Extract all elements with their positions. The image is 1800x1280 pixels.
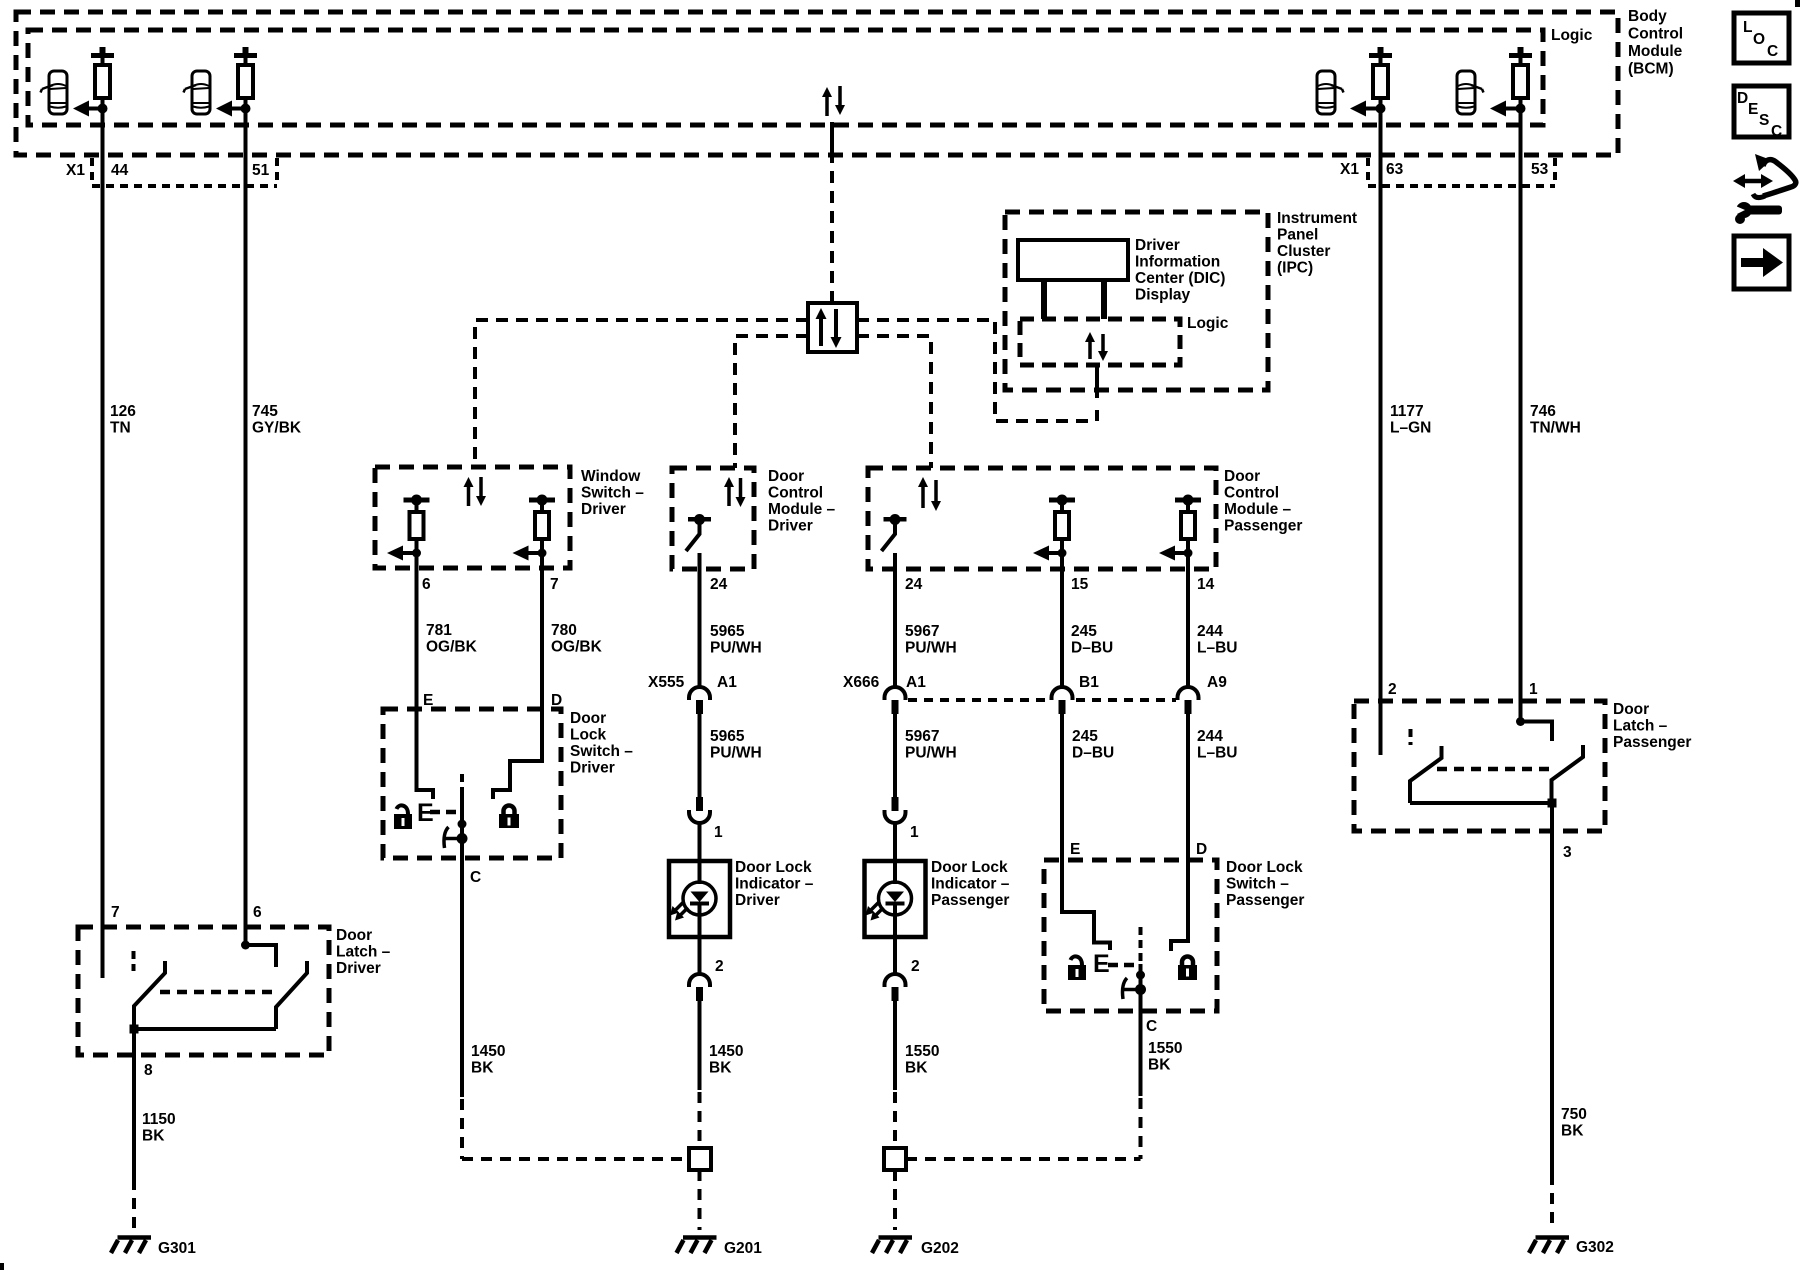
svg-text:O: O — [1753, 31, 1765, 48]
component box: Door Lock Switch - Driver — [383, 709, 561, 858]
dashed wire into splice (G202) — [893, 1092, 897, 1148]
svg-text:126: 126 — [110, 403, 136, 420]
svg-text:D: D — [551, 692, 562, 709]
connector X1 band right — [1368, 158, 1555, 186]
latch lever coupling dashes (driver) — [160, 990, 272, 995]
svg-text:Switch –: Switch – — [570, 743, 633, 760]
svg-text:Lock: Lock — [570, 727, 607, 744]
svg-text:14: 14 — [1197, 576, 1215, 593]
svg-text:C: C — [1771, 123, 1782, 140]
in-line connector at indicator pin 1 — [689, 797, 710, 823]
latch switch lever right (driver) — [276, 961, 307, 1029]
svg-text:2: 2 — [1388, 681, 1397, 698]
in-line connector X666 pin A1 — [885, 687, 906, 714]
svg-text:E: E — [423, 692, 433, 709]
component box: Door Lock Indicator - Driver — [669, 861, 730, 937]
svg-text:Logic: Logic — [1187, 315, 1229, 332]
dashed wire splice to ground — [698, 1170, 702, 1230]
dashed wire to ground G302 — [1550, 1174, 1554, 1228]
car icon (pin 44, off-page to vehicle) — [41, 71, 68, 114]
component box: Door Latch - Passenger — [1354, 701, 1605, 831]
component box: Door Lock Indicator - Passenger — [865, 861, 926, 937]
window switch driver output pin 6 — [387, 495, 430, 561]
serial data dashed elbow into IPC — [1095, 409, 1099, 421]
svg-text:746: 746 — [1530, 403, 1556, 420]
svg-text:E: E — [1070, 841, 1080, 858]
svg-text:Control: Control — [1628, 26, 1683, 43]
wire 1550 BK from lock switch C — [1139, 1011, 1143, 1096]
ground G301 — [111, 1238, 151, 1254]
svg-text:L–GN: L–GN — [1390, 420, 1431, 437]
module box: Door Control Module - Driver — [672, 468, 754, 569]
serial data junction box — [808, 303, 857, 352]
ground G202 — [872, 1238, 912, 1254]
latch lever coupling dashes (passenger) — [1437, 767, 1551, 772]
svg-text:L–BU: L–BU — [1197, 745, 1237, 762]
icon: LOC box — [1734, 13, 1789, 63]
BCM output driver pin 53 — [1490, 47, 1532, 117]
LED lamp symbol (passenger indicator) — [866, 882, 912, 921]
svg-text:G301: G301 — [158, 1240, 196, 1257]
svg-text:PU/WH: PU/WH — [710, 640, 762, 657]
svg-text:Control: Control — [1224, 485, 1279, 502]
serial data wire junction to window switch — [475, 320, 808, 467]
in-line connector X555 pin A1 — [689, 687, 710, 714]
svg-text:5965: 5965 — [710, 728, 745, 745]
svg-text:BK: BK — [142, 1128, 165, 1145]
svg-text:E: E — [1093, 950, 1110, 978]
svg-text:Module: Module — [1628, 43, 1683, 60]
dashed contact link E (passenger) — [1108, 963, 1136, 968]
icon: right arrow box — [1734, 236, 1789, 289]
svg-text:A1: A1 — [906, 674, 926, 691]
svg-text:53: 53 — [1531, 161, 1549, 178]
svg-text:Driver: Driver — [570, 760, 615, 777]
svg-text:Door: Door — [336, 927, 372, 944]
svg-text:Door: Door — [570, 710, 606, 727]
icon: diagnostic wrench with arrows — [1731, 154, 1796, 224]
wire 1177 end contact inside latch — [1379, 701, 1383, 755]
wire from passenger indicator pin 2 — [893, 905, 897, 974]
serial data arrows in BCM logic — [822, 86, 845, 116]
svg-text:Display: Display — [1135, 287, 1191, 304]
svg-text:PU/WH: PU/WH — [905, 640, 957, 657]
connector X1 band left — [92, 158, 277, 186]
svg-text:7: 7 — [550, 576, 559, 593]
wire 245 D-BU pin 15 — [1060, 557, 1064, 687]
wire 1177 L-GN from BCM pin 63 — [1379, 113, 1383, 755]
svg-text:44: 44 — [111, 162, 129, 179]
svg-text:TN/WH: TN/WH — [1530, 420, 1581, 437]
wire 126 end contact inside latch — [101, 927, 105, 978]
wire DCM passenger pin 24 — [893, 553, 897, 687]
unlock padlock icon (passenger) — [1068, 956, 1086, 980]
svg-text:GY/BK: GY/BK — [252, 420, 302, 437]
serial data wire junction to door control module passenger — [857, 336, 931, 468]
svg-text:D–BU: D–BU — [1072, 745, 1114, 762]
svg-text:D–BU: D–BU — [1071, 640, 1113, 657]
svg-text:5967: 5967 — [905, 623, 939, 640]
svg-text:(IPC): (IPC) — [1277, 260, 1313, 277]
ground bus wire left (1450 BK to G201 splice) — [462, 1157, 689, 1161]
car icon (pin 51) — [184, 71, 211, 114]
wire DCM driver pin 24 — [698, 553, 702, 687]
svg-text:3: 3 — [1563, 844, 1572, 861]
svg-text:245: 245 — [1071, 623, 1097, 640]
module box: Instrument Panel Cluster (IPC) — [1005, 212, 1268, 390]
mechanical link dashes (driver latch) — [132, 951, 136, 971]
DCM passenger driver output pin 14 — [1159, 495, 1201, 561]
wire 1550 BK (indicator to splice) — [893, 1001, 897, 1090]
serial data arrows in IPC logic — [1085, 332, 1108, 361]
in-line connector below passenger indicator — [885, 974, 906, 1001]
latch switch lever left (driver) — [134, 961, 165, 1029]
svg-text:X666: X666 — [843, 674, 880, 691]
latch junction node (driver) — [130, 1025, 139, 1034]
svg-text:15: 15 — [1071, 576, 1089, 593]
svg-text:PU/WH: PU/WH — [710, 745, 762, 762]
svg-text:G302: G302 — [1576, 1239, 1614, 1256]
icon: DESC box — [1734, 86, 1789, 140]
wire pin 3 out of latch — [1550, 803, 1554, 1174]
latch junction node (passenger) — [1548, 799, 1557, 808]
svg-text:Passenger: Passenger — [1226, 892, 1304, 909]
wire 245 D-BU (lower) — [1060, 714, 1064, 864]
DIC display block — [1018, 240, 1128, 280]
svg-text:8: 8 — [144, 1062, 153, 1079]
lock switch lever (driver) — [444, 774, 468, 858]
svg-text:2: 2 — [911, 958, 920, 975]
svg-text:Window: Window — [581, 468, 641, 485]
svg-text:51: 51 — [252, 162, 270, 179]
unlock padlock icon — [394, 805, 412, 829]
svg-text:1550: 1550 — [1148, 1040, 1182, 1057]
svg-text:781: 781 — [426, 622, 452, 639]
svg-text:6: 6 — [253, 904, 262, 921]
latch switch lever right (passenger) — [1552, 745, 1584, 803]
connector X666 dashed extent line — [908, 698, 1176, 702]
svg-text:750: 750 — [1561, 1106, 1587, 1123]
wire 745 contact hook inside latch — [241, 941, 276, 968]
svg-text:245: 245 — [1072, 728, 1098, 745]
wire from indicator pin 2 — [698, 905, 702, 974]
dashed wire splice to ground G202 — [893, 1170, 897, 1230]
wire D contact steps (driver lock switch) — [493, 759, 542, 799]
svg-text:Module –: Module – — [768, 501, 836, 518]
svg-text:OG/BK: OG/BK — [551, 639, 603, 656]
ground bus wire right (G202 splice to 1550 BK) — [906, 1157, 1141, 1161]
svg-text:BK: BK — [1148, 1057, 1171, 1074]
svg-text:B1: B1 — [1079, 674, 1099, 691]
svg-text:Door Lock: Door Lock — [735, 859, 812, 876]
component box: Door Lock Switch - Passenger — [1044, 860, 1217, 1011]
serial data stub from IPC logic — [1095, 363, 1099, 398]
car icon (pin 63) — [1317, 71, 1344, 114]
svg-text:7: 7 — [111, 904, 120, 921]
BCM output driver pin 63 — [1350, 47, 1392, 117]
svg-text:Logic: Logic — [1551, 27, 1593, 44]
svg-text:5965: 5965 — [710, 623, 745, 640]
svg-text:Passenger: Passenger — [1613, 734, 1691, 751]
logic box inside BCM — [28, 30, 1543, 125]
serial data stub from BCM logic — [830, 122, 834, 163]
svg-text:Door: Door — [1613, 701, 1649, 718]
svg-text:Indicator –: Indicator – — [931, 876, 1010, 893]
BCM output driver pin 44 — [73, 47, 114, 117]
svg-text:Instrument: Instrument — [1277, 210, 1357, 227]
latch switch lever left (passenger) — [1410, 746, 1442, 803]
svg-text:G201: G201 — [724, 1240, 762, 1257]
splice junction (G202 branch) — [884, 1148, 906, 1170]
svg-text:A1: A1 — [717, 674, 737, 691]
svg-text:Latch –: Latch – — [1613, 718, 1668, 735]
logic box inside IPC — [1020, 319, 1180, 365]
splice junction (G201 branch) — [689, 1148, 711, 1170]
svg-text:PU/WH: PU/WH — [905, 745, 957, 762]
wire pin 8 out of latch — [132, 1029, 136, 1179]
lock padlock icon (passenger) — [1178, 957, 1197, 980]
svg-text:Panel: Panel — [1277, 227, 1318, 244]
LED lamp symbol (driver indicator) — [670, 882, 716, 921]
serial data arrows in DCM driver — [724, 477, 746, 507]
DCM passenger driver output pin 15 — [1033, 495, 1075, 561]
svg-text:Door: Door — [1224, 468, 1260, 485]
svg-text:BK: BK — [905, 1060, 928, 1077]
svg-text:X555: X555 — [648, 674, 685, 691]
module box: Door Control Module - Passenger — [868, 468, 1216, 569]
svg-text:G202: G202 — [921, 1240, 959, 1257]
wire 5965 PU/WH (lower) — [698, 714, 702, 797]
wire 1450 BK from lock switch C — [460, 858, 464, 1097]
svg-text:Door: Door — [768, 468, 804, 485]
lock padlock icon (driver) — [499, 806, 519, 829]
svg-text:D: D — [1737, 90, 1748, 107]
svg-text:L: L — [1743, 19, 1752, 36]
svg-text:Module –: Module – — [1224, 501, 1292, 518]
svg-text:TN: TN — [110, 420, 131, 437]
svg-text:1150: 1150 — [142, 1111, 176, 1128]
in-line connector at passenger indicator pin 1 — [885, 797, 906, 823]
serial data arrows in DCM passenger — [918, 477, 941, 511]
svg-text:63: 63 — [1386, 161, 1404, 178]
dashed wire 1550 BK to ground bus — [1139, 1098, 1143, 1159]
svg-text:6: 6 — [422, 576, 431, 593]
wire 126 TN from BCM pin 44 — [101, 113, 105, 927]
svg-text:OG/BK: OG/BK — [426, 639, 478, 656]
svg-text:C: C — [1146, 1018, 1157, 1035]
dashed wire into splice — [698, 1092, 702, 1148]
svg-text:Driver: Driver — [581, 501, 626, 518]
svg-text:Passenger: Passenger — [931, 892, 1009, 909]
wire 746 contact hook inside latch — [1516, 717, 1552, 741]
in-line connector below indicator pin 2 — [689, 974, 710, 1001]
wire 781 OG/BK — [415, 557, 419, 790]
wire to indicator — [698, 822, 702, 884]
svg-text:1450: 1450 — [471, 1043, 505, 1060]
dashed wire to ground G301 — [132, 1179, 136, 1230]
svg-text:Driver: Driver — [336, 960, 381, 977]
dashed contact link E (driver) — [430, 810, 458, 815]
svg-text:BK: BK — [1561, 1123, 1584, 1140]
svg-text:A9: A9 — [1207, 674, 1227, 691]
dashed wire 1450 BK to ground bus — [460, 1099, 464, 1159]
svg-text:Switch –: Switch – — [581, 485, 644, 502]
module box: Window Switch - Driver — [375, 467, 570, 568]
serial data arrows in junction box — [816, 308, 842, 348]
svg-text:24: 24 — [905, 576, 923, 593]
wire E contact step (driver lock switch) — [417, 788, 434, 799]
latch common bar (driver) — [134, 1027, 276, 1031]
svg-text:(BCM): (BCM) — [1628, 61, 1674, 78]
in-line connector pin A9 — [1178, 687, 1199, 714]
DIC display legs — [1044, 280, 1104, 319]
wire 5967 PU/WH (lower) — [893, 714, 897, 797]
lock switch lever (passenger) — [1123, 927, 1147, 1011]
serial data wire junction to door control module driver — [735, 336, 808, 468]
svg-text:244: 244 — [1197, 623, 1223, 640]
svg-text:Door Lock: Door Lock — [931, 859, 1008, 876]
svg-text:C: C — [1767, 43, 1778, 60]
svg-text:2: 2 — [715, 958, 724, 975]
page artifact top right — [1795, 0, 1800, 7]
svg-text:Body: Body — [1628, 8, 1667, 25]
svg-text:5967: 5967 — [905, 728, 939, 745]
mechanical link dashes (passenger latch) — [1409, 729, 1413, 745]
serial data wire junction to IPC — [857, 320, 1095, 421]
svg-text:Control: Control — [768, 485, 823, 502]
wire to passenger indicator — [893, 822, 897, 884]
svg-text:244: 244 — [1197, 728, 1223, 745]
svg-text:Passenger: Passenger — [1224, 518, 1302, 535]
svg-text:X1: X1 — [66, 162, 85, 179]
car icon (pin 53) — [1457, 71, 1484, 114]
svg-text:Switch –: Switch – — [1226, 876, 1289, 893]
wire 1450 BK (indicator to splice) — [698, 1001, 702, 1090]
ground G302 — [1529, 1238, 1569, 1254]
svg-text:Center (DIC): Center (DIC) — [1135, 270, 1225, 287]
wire 746 TN/WH from BCM pin 53 — [1519, 113, 1523, 721]
latch common bar (passenger) — [1410, 801, 1552, 805]
wire 745 GY/BK from BCM pin 51 — [244, 113, 248, 945]
wire E contact steps (passenger lock switch) — [1062, 860, 1110, 950]
lock switch contact in DCM driver — [686, 514, 711, 551]
svg-text:Driver: Driver — [768, 518, 813, 535]
svg-text:1: 1 — [1529, 681, 1538, 698]
in-line connector pin B1 — [1052, 687, 1073, 714]
svg-text:BK: BK — [709, 1060, 732, 1077]
wire D contact step (passenger lock switch) — [1171, 860, 1188, 951]
svg-text:1: 1 — [910, 824, 919, 841]
svg-text:1450: 1450 — [709, 1043, 743, 1060]
component box: Door Latch - Driver — [78, 927, 329, 1055]
svg-text:Driver: Driver — [1135, 237, 1180, 254]
svg-text:1550: 1550 — [905, 1043, 939, 1060]
wire 244 L-BU pin 14 — [1186, 557, 1190, 687]
module box: Body Control Module (BCM) — [16, 12, 1618, 155]
svg-text:745: 745 — [252, 403, 278, 420]
svg-text:1: 1 — [714, 824, 723, 841]
svg-text:C: C — [470, 869, 481, 886]
svg-text:780: 780 — [551, 622, 577, 639]
svg-text:Indicator –: Indicator – — [735, 876, 814, 893]
lock switch contact in DCM passenger — [882, 514, 907, 551]
serial data arrows in window switch — [464, 477, 487, 506]
svg-text:Cluster: Cluster — [1277, 243, 1330, 260]
serial data wire BCM to junction — [830, 171, 834, 303]
svg-text:Information: Information — [1135, 254, 1220, 271]
svg-text:Latch –: Latch – — [336, 944, 391, 961]
svg-text:BK: BK — [471, 1060, 494, 1077]
window switch driver output pin 7 — [513, 495, 556, 561]
ground G201 — [677, 1238, 717, 1254]
svg-text:1177: 1177 — [1390, 403, 1424, 420]
svg-text:S: S — [1759, 112, 1769, 129]
svg-text:X1: X1 — [1340, 161, 1359, 178]
svg-text:L–BU: L–BU — [1197, 640, 1237, 657]
svg-text:Door Lock: Door Lock — [1226, 859, 1303, 876]
page artifact bottom left — [0, 1263, 4, 1270]
wire 244 L-BU (lower) — [1186, 714, 1190, 864]
svg-text:E: E — [1748, 101, 1758, 118]
svg-text:D: D — [1196, 841, 1207, 858]
svg-text:Driver: Driver — [735, 892, 780, 909]
BCM output driver pin 51 — [216, 47, 257, 117]
wire 780 OG/BK — [540, 557, 544, 761]
svg-text:24: 24 — [710, 576, 728, 593]
